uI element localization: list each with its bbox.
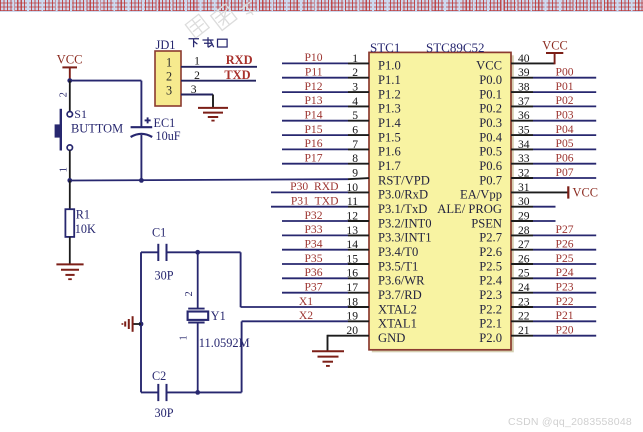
pin label 2 (Y1) — [184, 291, 195, 296]
capacitor C1 — [158, 244, 166, 261]
pin label 1 (S1) — [59, 167, 70, 172]
wire net pin 25 — [511, 277, 596, 279]
pin number 12 — [346, 209, 358, 222]
svg-text:P1.6: P1.6 — [378, 145, 401, 159]
IC left pin names — [378, 59, 432, 345]
svg-text:38: 38 — [518, 81, 530, 94]
svg-text:P0.4: P0.4 — [479, 130, 502, 144]
svg-text:3: 3 — [166, 84, 172, 98]
ground symbol (sideways) at crystal loop — [122, 316, 132, 332]
pin number 28 — [518, 224, 530, 237]
svg-text:P0.1: P0.1 — [479, 87, 502, 101]
svg-text:VCC: VCC — [573, 186, 598, 200]
label R1 — [76, 208, 90, 222]
svg-text:P3.1/TxD: P3.1/TxD — [378, 202, 427, 216]
svg-text:P1.5: P1.5 — [378, 130, 401, 144]
svg-text:14: 14 — [346, 238, 358, 251]
svg-text:P3.3/INT1: P3.3/INT1 — [378, 231, 432, 245]
svg-text:30P: 30P — [155, 269, 174, 283]
pin label 2 (S1) — [59, 92, 70, 97]
svg-text:29: 29 — [518, 209, 530, 222]
svg-text:19: 19 — [346, 310, 358, 323]
svg-text:P12: P12 — [304, 80, 322, 93]
connector JD1 body — [155, 51, 181, 106]
svg-text:2: 2 — [352, 66, 358, 79]
svg-text:8: 8 — [352, 152, 358, 165]
svg-text:P2.0: P2.0 — [479, 331, 502, 345]
pin number 37 — [518, 95, 530, 108]
pin number 16 — [346, 267, 358, 280]
svg-text:P03: P03 — [556, 109, 574, 122]
svg-text:10: 10 — [346, 181, 358, 194]
wire crystal loop top (XTAL2 net) — [141, 252, 241, 307]
pin number 6 — [352, 124, 358, 137]
svg-text:EC1: EC1 — [154, 116, 176, 130]
svg-text:P05: P05 — [556, 137, 574, 150]
resistor R1 — [65, 209, 74, 237]
wire net pin 18 — [241, 306, 369, 308]
svg-text:P1.4: P1.4 — [378, 116, 401, 130]
svg-text:10K: 10K — [75, 222, 96, 236]
svg-text:6: 6 — [352, 124, 358, 137]
net label P05 — [556, 137, 574, 150]
watermark glyphs — [169, 0, 279, 68]
svg-text:XTAL1: XTAL1 — [378, 317, 417, 331]
svg-text:1: 1 — [179, 335, 190, 340]
wire ground stub — [133, 323, 141, 325]
wire net pin 21 — [511, 335, 596, 337]
pin label 1 (Y1) — [179, 335, 190, 340]
net label RXD — [226, 53, 253, 67]
wire net pin 6 — [282, 134, 369, 136]
pin number 5 — [352, 109, 358, 122]
net label P32 — [304, 209, 322, 222]
svg-text:C2: C2 — [152, 369, 166, 383]
svg-text:STC1: STC1 — [370, 40, 400, 55]
svg-text:P2.3: P2.3 — [479, 288, 502, 302]
net label P16 — [304, 137, 322, 150]
pin number 1 — [194, 54, 200, 67]
svg-text:P36: P36 — [304, 266, 322, 279]
value 10uF — [156, 129, 181, 143]
value 30P (C1) — [155, 269, 174, 283]
wire Y1 bottom lead — [197, 323, 199, 393]
svg-text:11: 11 — [347, 195, 358, 208]
junction node loop/ground — [139, 322, 144, 327]
pin number 20 — [346, 324, 358, 337]
wire EC1 bottom lead — [140, 135, 142, 180]
svg-text:P20: P20 — [556, 324, 574, 337]
svg-text:7: 7 — [352, 138, 358, 151]
watermark CSDN id — [508, 416, 632, 428]
net label X1 — [299, 295, 313, 308]
wire net pin 30 — [511, 206, 556, 208]
wire net pin 33 — [511, 163, 596, 165]
svg-text:30: 30 — [518, 195, 530, 208]
svg-text:P0.2: P0.2 — [479, 102, 502, 116]
wire net pin 17 — [282, 292, 369, 294]
wire S1 bottom lead — [69, 150, 71, 180]
svg-text:P2.6: P2.6 — [479, 245, 502, 259]
svg-text:P2.4: P2.4 — [479, 274, 502, 288]
pin number 36 — [518, 109, 530, 122]
wire net pin 14 — [282, 249, 369, 251]
pin number 34 — [518, 138, 530, 151]
wire R1 top lead — [69, 181, 71, 210]
svg-text:VCC: VCC — [57, 53, 83, 67]
net label P17 — [304, 152, 322, 165]
svg-text:P25: P25 — [556, 252, 574, 265]
svg-text:2: 2 — [184, 291, 195, 296]
value 10K — [75, 222, 96, 236]
svg-text:P34: P34 — [304, 238, 322, 251]
net label P04 — [556, 123, 574, 136]
net label P15 — [304, 123, 322, 136]
svg-text:P3.0/RxD: P3.0/RxD — [378, 188, 428, 202]
svg-text:34: 34 — [518, 138, 530, 151]
net label P11 — [305, 66, 323, 79]
wire net pin 24 — [511, 292, 596, 294]
net label P21 — [556, 309, 574, 322]
wire net pin 10 — [271, 191, 369, 193]
ground symbol below JD1 — [198, 108, 228, 121]
net label P35 — [304, 252, 322, 265]
wire JD1 pin 1 (RXD) — [181, 66, 257, 68]
pin number 38 — [518, 81, 530, 94]
svg-text:22: 22 — [518, 310, 530, 323]
svg-text:C1: C1 — [152, 226, 166, 240]
net label P20 — [556, 324, 574, 337]
svg-text:37: 37 — [518, 95, 530, 108]
pin number 21 — [518, 324, 530, 337]
svg-text:P0.0: P0.0 — [479, 73, 502, 87]
net label P12 — [304, 80, 322, 93]
wire net pin 22 — [511, 320, 596, 322]
net label P06 — [556, 152, 574, 165]
wire net pin 15 — [282, 263, 369, 265]
svg-text:Y1: Y1 — [211, 309, 226, 323]
label 下载口 (download port glyphs) — [189, 37, 228, 47]
net label P03 — [556, 109, 574, 122]
svg-text:1: 1 — [194, 54, 200, 67]
svg-text:23: 23 — [518, 295, 530, 308]
svg-text:P14: P14 — [304, 109, 322, 122]
svg-text:P06: P06 — [556, 152, 574, 165]
pin number 22 — [518, 310, 530, 323]
wire net pin 4 — [282, 105, 369, 107]
pin number 26 — [518, 252, 530, 265]
net label P07 — [556, 166, 574, 179]
pin number 11 — [347, 195, 358, 208]
svg-text:3: 3 — [352, 81, 358, 94]
label Y1 — [211, 309, 226, 323]
svg-text:13: 13 — [346, 224, 358, 237]
IC part number STC89C52 — [426, 40, 485, 55]
svg-text:S1: S1 — [74, 107, 87, 121]
svg-text:TXD: TXD — [224, 68, 250, 82]
svg-text:R1: R1 — [76, 208, 90, 222]
wire crystal loop left — [140, 252, 142, 392]
pin number 32 — [518, 166, 530, 179]
junction node EC1/RST — [139, 178, 144, 183]
svg-text:P1.2: P1.2 — [378, 87, 401, 101]
wire R1 bottom lead — [69, 237, 71, 264]
svg-text:P16: P16 — [304, 137, 322, 150]
svg-text:P17: P17 — [304, 152, 322, 165]
svg-text:5: 5 — [352, 109, 358, 122]
wire net pin 27 — [511, 249, 596, 251]
svg-text:P33: P33 — [304, 223, 322, 236]
svg-text:RXD: RXD — [226, 53, 253, 67]
IC right pin names — [437, 59, 502, 345]
svg-text:P37: P37 — [304, 281, 322, 294]
net label P34 — [304, 238, 322, 251]
wire net pin 2 — [282, 77, 369, 79]
pin number 23 — [518, 295, 530, 308]
svg-text:40: 40 — [518, 52, 530, 65]
svg-text:P21: P21 — [556, 309, 574, 322]
svg-text:ALE/ PROG: ALE/ PROG — [437, 202, 502, 216]
pin number 24 — [518, 281, 530, 294]
wire net pin 7 — [282, 148, 369, 150]
svg-text:20: 20 — [346, 324, 358, 337]
wire net pin 11 — [271, 206, 369, 208]
svg-text:25: 25 — [518, 267, 530, 280]
svg-text:10uF: 10uF — [156, 129, 181, 143]
svg-text:24: 24 — [518, 281, 530, 294]
label BUTTOM — [71, 122, 123, 136]
svg-text:28: 28 — [518, 224, 530, 237]
net label P23 — [556, 281, 574, 294]
wire net VCC (pin 40) — [511, 62, 555, 64]
IC STC1 STC89C52 body — [369, 52, 514, 352]
svg-text:39: 39 — [518, 66, 530, 79]
ground symbol at IC GND — [312, 351, 344, 366]
wire net pin 3 — [282, 91, 369, 93]
svg-text:EA/Vpp: EA/Vpp — [460, 188, 502, 202]
pin number 29 — [518, 209, 530, 222]
svg-text:3: 3 — [191, 83, 197, 96]
pin number 31 — [518, 181, 530, 194]
net label P00 — [556, 66, 574, 79]
svg-text:2: 2 — [194, 69, 200, 82]
power VCC at pin 31 — [568, 186, 598, 200]
IC designator STC1 — [370, 40, 400, 55]
pin number 3 — [191, 83, 197, 96]
pin number 15 — [346, 252, 358, 265]
svg-text:P07: P07 — [556, 166, 574, 179]
svg-text:P22: P22 — [556, 295, 574, 308]
pin number 7 — [352, 138, 358, 151]
svg-text:30P: 30P — [155, 406, 174, 420]
svg-text:12: 12 — [346, 209, 358, 222]
wire net pin 26 — [511, 263, 596, 265]
capacitor C2 — [158, 384, 166, 401]
svg-text:X2: X2 — [299, 309, 313, 322]
pin number 8 — [352, 152, 358, 165]
svg-text:P2.1: P2.1 — [479, 317, 502, 331]
svg-text:P10: P10 — [304, 51, 322, 64]
svg-text:P31 TXD: P31 TXD — [291, 195, 339, 208]
text banner (cut-off Chinese caption) — [0, 0, 643, 12]
net label TXD — [224, 68, 250, 82]
net label P33 — [304, 223, 322, 236]
svg-text:P1.1: P1.1 — [378, 73, 401, 87]
wire net pin 34 — [511, 148, 596, 150]
wire JD1 pin 2 (TXD) — [181, 80, 256, 82]
svg-text:P26: P26 — [556, 238, 574, 251]
svg-text:P11: P11 — [305, 66, 323, 79]
svg-text:P0.6: P0.6 — [479, 159, 502, 173]
wire net RST (pin 9) — [70, 178, 369, 180]
label C2 — [152, 369, 166, 383]
pin number 35 — [518, 124, 530, 137]
pin number 2 — [352, 66, 358, 79]
svg-text:P3.6/WR: P3.6/WR — [378, 274, 425, 288]
svg-text:9: 9 — [352, 166, 358, 179]
net label P30&#160;&#160;RXD — [290, 180, 338, 193]
svg-text:1: 1 — [59, 167, 70, 172]
svg-text:32: 32 — [518, 166, 530, 179]
svg-text:26: 26 — [518, 252, 530, 265]
pin number 3 — [352, 81, 358, 94]
pin number 10 — [346, 181, 358, 194]
svg-text:P02: P02 — [556, 94, 574, 107]
svg-text:1: 1 — [166, 56, 172, 70]
wire S1 top lead — [69, 81, 71, 112]
junction node C2/Y1 — [195, 390, 200, 395]
label C1 — [152, 226, 166, 240]
net label P22 — [556, 295, 574, 308]
ground symbol below R1 — [56, 264, 83, 279]
svg-text:GND: GND — [378, 331, 405, 345]
junction node S1/RST — [67, 178, 72, 183]
pin number 40 — [518, 52, 530, 65]
svg-text:21: 21 — [518, 324, 530, 337]
svg-text:P3.7/RD: P3.7/RD — [378, 288, 422, 302]
pin number 14 — [346, 238, 358, 251]
wire JD1 pin 3 to ground — [181, 95, 213, 108]
pin number 13 — [346, 224, 358, 237]
svg-text:P27: P27 — [556, 223, 574, 236]
wire net pin 37 — [511, 105, 596, 107]
svg-text:2: 2 — [59, 92, 70, 97]
svg-text:17: 17 — [346, 281, 358, 294]
svg-text:VCC: VCC — [476, 59, 502, 73]
svg-text:16: 16 — [346, 267, 358, 280]
wire net pin 5 — [282, 120, 369, 122]
wire Y1 top lead — [197, 252, 199, 308]
wire net pin 23 — [511, 306, 596, 308]
wire net pin 12 — [282, 220, 369, 222]
junction node C1/Y1 — [195, 250, 200, 255]
svg-text:P0.7: P0.7 — [479, 173, 502, 187]
svg-text:2: 2 — [166, 70, 172, 84]
net label P36 — [304, 266, 322, 279]
wire net pin 1 — [282, 62, 369, 64]
pushbutton S1 — [55, 109, 73, 151]
value 30P (C2) — [155, 406, 174, 420]
svg-text:JD1: JD1 — [156, 38, 176, 52]
pin number 27 — [518, 238, 530, 251]
net label P26 — [556, 238, 574, 251]
connector JD1 pin numbers inside — [166, 56, 172, 98]
svg-text:P2.5: P2.5 — [479, 259, 502, 273]
svg-text:P32: P32 — [304, 209, 322, 222]
pin number 2 — [194, 69, 200, 82]
pin number 4 — [352, 95, 358, 108]
wire net pin 39 — [511, 77, 596, 79]
value 11.0592M — [199, 336, 250, 350]
power VCC at pin 40 — [542, 38, 567, 64]
wire net pin 35 — [511, 134, 596, 136]
pin number 1 — [352, 52, 358, 65]
svg-text:P30 RXD: P30 RXD — [290, 180, 338, 193]
pin number 17 — [346, 281, 358, 294]
svg-text:1: 1 — [352, 52, 358, 65]
svg-text:BUTTOM: BUTTOM — [71, 122, 123, 136]
svg-text:33: 33 — [518, 152, 530, 165]
svg-text:P3.2/INT0: P3.2/INT0 — [378, 216, 432, 230]
svg-text:P3.4/T0: P3.4/T0 — [378, 245, 418, 259]
net label P27 — [556, 223, 574, 236]
svg-text:PSEN: PSEN — [471, 216, 502, 230]
label S1 — [74, 107, 87, 121]
label EC1 — [154, 116, 176, 130]
svg-text:P35: P35 — [304, 252, 322, 265]
junction node VCC/S1 — [67, 78, 72, 83]
pin number 25 — [518, 267, 530, 280]
svg-text:P0.5: P0.5 — [479, 145, 502, 159]
label JD1 — [156, 38, 176, 52]
svg-text:P2.2: P2.2 — [479, 302, 502, 316]
svg-text:STC89C52: STC89C52 — [426, 40, 485, 55]
svg-text:15: 15 — [346, 252, 358, 265]
wire net pin 13 — [282, 234, 369, 236]
wire crystal loop bottom (XTAL1 net) — [141, 321, 242, 392]
pin number 39 — [518, 66, 530, 79]
wire net pin 19 — [242, 320, 369, 322]
net label P10 — [304, 51, 322, 64]
svg-text:P15: P15 — [304, 123, 322, 136]
svg-text:P00: P00 — [556, 66, 574, 79]
wire net pin 38 — [511, 91, 596, 93]
svg-text:18: 18 — [346, 295, 358, 308]
svg-text:XTAL2: XTAL2 — [378, 302, 417, 316]
pin number 9 — [352, 166, 358, 179]
net label P01 — [556, 80, 574, 93]
power VCC top-left — [57, 53, 83, 81]
pin number 18 — [346, 295, 358, 308]
svg-text:P0.3: P0.3 — [479, 116, 502, 130]
svg-text:P13: P13 — [304, 94, 322, 107]
pin number 19 — [346, 310, 358, 323]
svg-text:X1: X1 — [299, 295, 313, 308]
net label P24 — [556, 266, 574, 279]
svg-text:27: 27 — [518, 238, 530, 251]
wire net GND (pin 20) — [328, 335, 370, 351]
svg-text:31: 31 — [518, 181, 530, 194]
svg-text:P24: P24 — [556, 266, 574, 279]
svg-text:35: 35 — [518, 124, 530, 137]
svg-text:P1.3: P1.3 — [378, 102, 401, 116]
net label X2 — [299, 309, 313, 322]
wire net pin 16 — [282, 277, 369, 279]
svg-text:P2.7: P2.7 — [479, 231, 502, 245]
wire VCC junction to EC1 branch — [70, 81, 142, 127]
svg-text:P04: P04 — [556, 123, 574, 136]
wire net pin 8 — [282, 163, 369, 165]
